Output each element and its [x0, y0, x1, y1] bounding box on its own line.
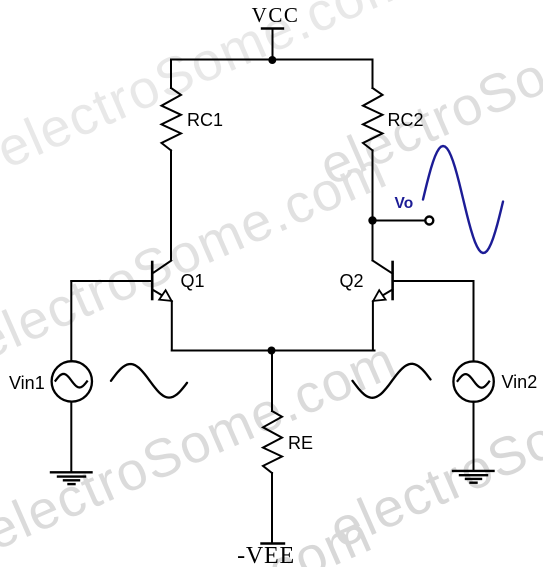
wire Vin2 to base	[473, 281, 475, 362]
svg-text:electroSome.com: electroSome.com	[378, 0, 543, 10]
source Vin2	[453, 361, 537, 401]
wire Q2 emitter	[372, 301, 374, 350]
wire Vin1 to ground	[70, 402, 72, 473]
svg-text:Vo: Vo	[395, 195, 414, 212]
ground right	[453, 471, 494, 483]
svg-text:Q1: Q1	[181, 271, 205, 291]
sine wave Vin2	[353, 364, 431, 398]
resistor RC2	[363, 88, 424, 150]
wire top rail	[171, 59, 373, 61]
wire Q1 emitter	[171, 301, 173, 350]
wire node to RE	[271, 351, 273, 412]
svg-text:Q2: Q2	[340, 271, 364, 291]
resistor RE	[263, 411, 313, 473]
wire Vin1 to base	[70, 281, 72, 361]
wire rail to RC1	[170, 60, 172, 89]
svg-text:Vin2: Vin2	[502, 372, 538, 392]
ground left	[51, 472, 92, 484]
wire Q2 base	[393, 280, 474, 282]
wire rail to RC2	[372, 60, 374, 89]
junction emitter node	[268, 347, 276, 355]
wire Q1 base	[71, 280, 151, 282]
wire RE to -VEE	[271, 473, 273, 543]
svg-text:Vin1: Vin1	[9, 373, 45, 393]
svg-text:VCC: VCC	[252, 3, 300, 27]
terminal Vo	[425, 217, 433, 225]
sine wave output blue	[423, 146, 503, 253]
svg-text:RC2: RC2	[388, 110, 424, 130]
junction VCC node	[268, 56, 276, 64]
svg-text:RE: RE	[288, 433, 313, 453]
svg-text:-VEE: -VEE	[237, 543, 295, 567]
power VCC	[252, 3, 300, 60]
transistor Q1	[152, 261, 204, 302]
wire Vin2 to ground	[473, 402, 475, 471]
power -VEE	[237, 543, 295, 567]
sine wave Vin1	[111, 364, 187, 398]
wire emitter rail	[172, 350, 375, 352]
svg-text:RC1: RC1	[187, 110, 223, 130]
wire RC2 to Q2 collector	[372, 150, 374, 260]
wire Vo	[373, 220, 425, 222]
transistor Q2	[340, 261, 393, 302]
resistor RC1	[162, 88, 224, 150]
source Vin1	[9, 361, 92, 401]
junction Vo node	[368, 216, 376, 224]
wire RC1 to Q1 collector	[170, 150, 172, 260]
